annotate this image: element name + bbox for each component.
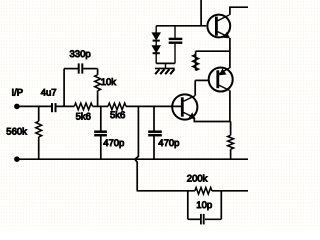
resistor R2 10k [95,69,101,107]
svg-text:470p: 470p [158,138,179,149]
wire to Q3 base [126,105,182,107]
wire main input [17,105,51,107]
capacitor C3 470p first [94,106,107,159]
resistor R6 Q2 base feed [193,51,230,70]
svg-text:10p: 10p [196,200,212,211]
diode D1 [152,26,160,41]
diode D2 [152,41,160,64]
wire bias loop bottom [156,62,175,64]
capacitor C6 bias decoupling [169,26,183,64]
wire Q2 collector down [229,90,231,121]
capacitor C5 10p loop [188,191,222,225]
resistor R4 5k6 second [108,103,126,110]
transistor Q2 [209,68,233,92]
top bias rail [156,25,206,27]
transistor Q3 [172,94,197,119]
capacitor C4 470p second [148,106,162,159]
wire feedback loop left [64,69,78,107]
capacitor C2 330p [79,63,83,73]
ground rail [17,158,248,160]
input terminal dot [15,104,20,109]
svg-text:5k6: 5k6 [110,110,125,121]
resistor R3 5k6 first [74,103,92,110]
wire after C1 [56,105,74,107]
resistor R5 200k [137,188,248,195]
wire Q3 collector up [194,80,196,95]
wire Q2 base tee [195,79,208,81]
svg-text:10k: 10k [101,77,117,88]
svg-text:I/P: I/P [12,87,24,98]
svg-text:5k6: 5k6 [76,112,91,123]
wire Q3 emitter run [194,118,230,122]
svg-text:560k: 560k [6,126,27,137]
resistor R1 560k [36,106,42,159]
svg-text:330p: 330p [70,49,91,60]
ground terminal dot [15,157,20,162]
wire Q1 emitter to Q2 [229,38,231,68]
wire feedback loop top right [83,68,97,70]
svg-text:470p: 470p [103,138,124,149]
svg-text:200k: 200k [187,173,208,184]
wire feedback drop with jog over rail [135,106,139,190]
wire between 5k6s [93,105,109,107]
ground chassis symbol [155,63,175,74]
capacitor C1 4u7 [52,103,56,112]
wire Q1 collector to top right [230,7,248,15]
svg-text:4u7: 4u7 [41,87,57,98]
transistor Q1 [207,15,230,38]
wire supply riser [200,0,202,26]
resistor R7 emitter load [228,122,234,160]
